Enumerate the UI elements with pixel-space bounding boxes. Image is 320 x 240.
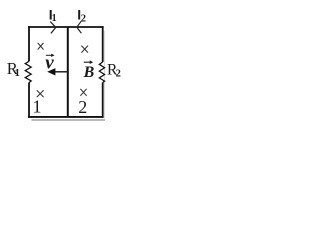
resistor R2 zigzag — [99, 62, 104, 82]
wire top side of loop rectangle — [28, 26, 104, 28]
shadow right of right wire — [103, 31, 105, 119]
flux symbol x (into page), right loop upper — [81, 46, 88, 53]
shadow under bottom wire — [32, 119, 106, 121]
current I2 arrowhead on top wire — [77, 21, 82, 33]
flux symbol x (into page), left loop upper — [38, 43, 44, 50]
wire right side upper segment — [102, 26, 104, 62]
svg-text:B: B — [83, 64, 95, 81]
velocity arrow on rod pointing left — [53, 71, 68, 73]
conducting rod (middle bar) — [67, 27, 69, 117]
flux symbol x (into page), right loop lower — [80, 89, 86, 96]
flux symbol x (into page), left loop lower — [37, 90, 44, 97]
svg-text:2: 2 — [81, 13, 86, 24]
svg-text:2: 2 — [78, 97, 87, 117]
svg-text:1: 1 — [33, 96, 42, 116]
svg-text:1: 1 — [15, 67, 21, 79]
wire right side lower segment — [102, 82, 104, 117]
wire left side lower segment — [28, 83, 30, 118]
wire bottom side of loop rectangle — [28, 116, 104, 118]
current I1 arrowhead on top wire — [50, 22, 56, 34]
resistor R1 zigzag — [25, 61, 31, 82]
vector arrow over v — [46, 54, 52, 56]
vector arrow over B — [84, 61, 91, 63]
svg-text:2: 2 — [116, 68, 121, 79]
wire left side upper segment — [28, 26, 30, 61]
svg-text:1: 1 — [52, 13, 57, 24]
